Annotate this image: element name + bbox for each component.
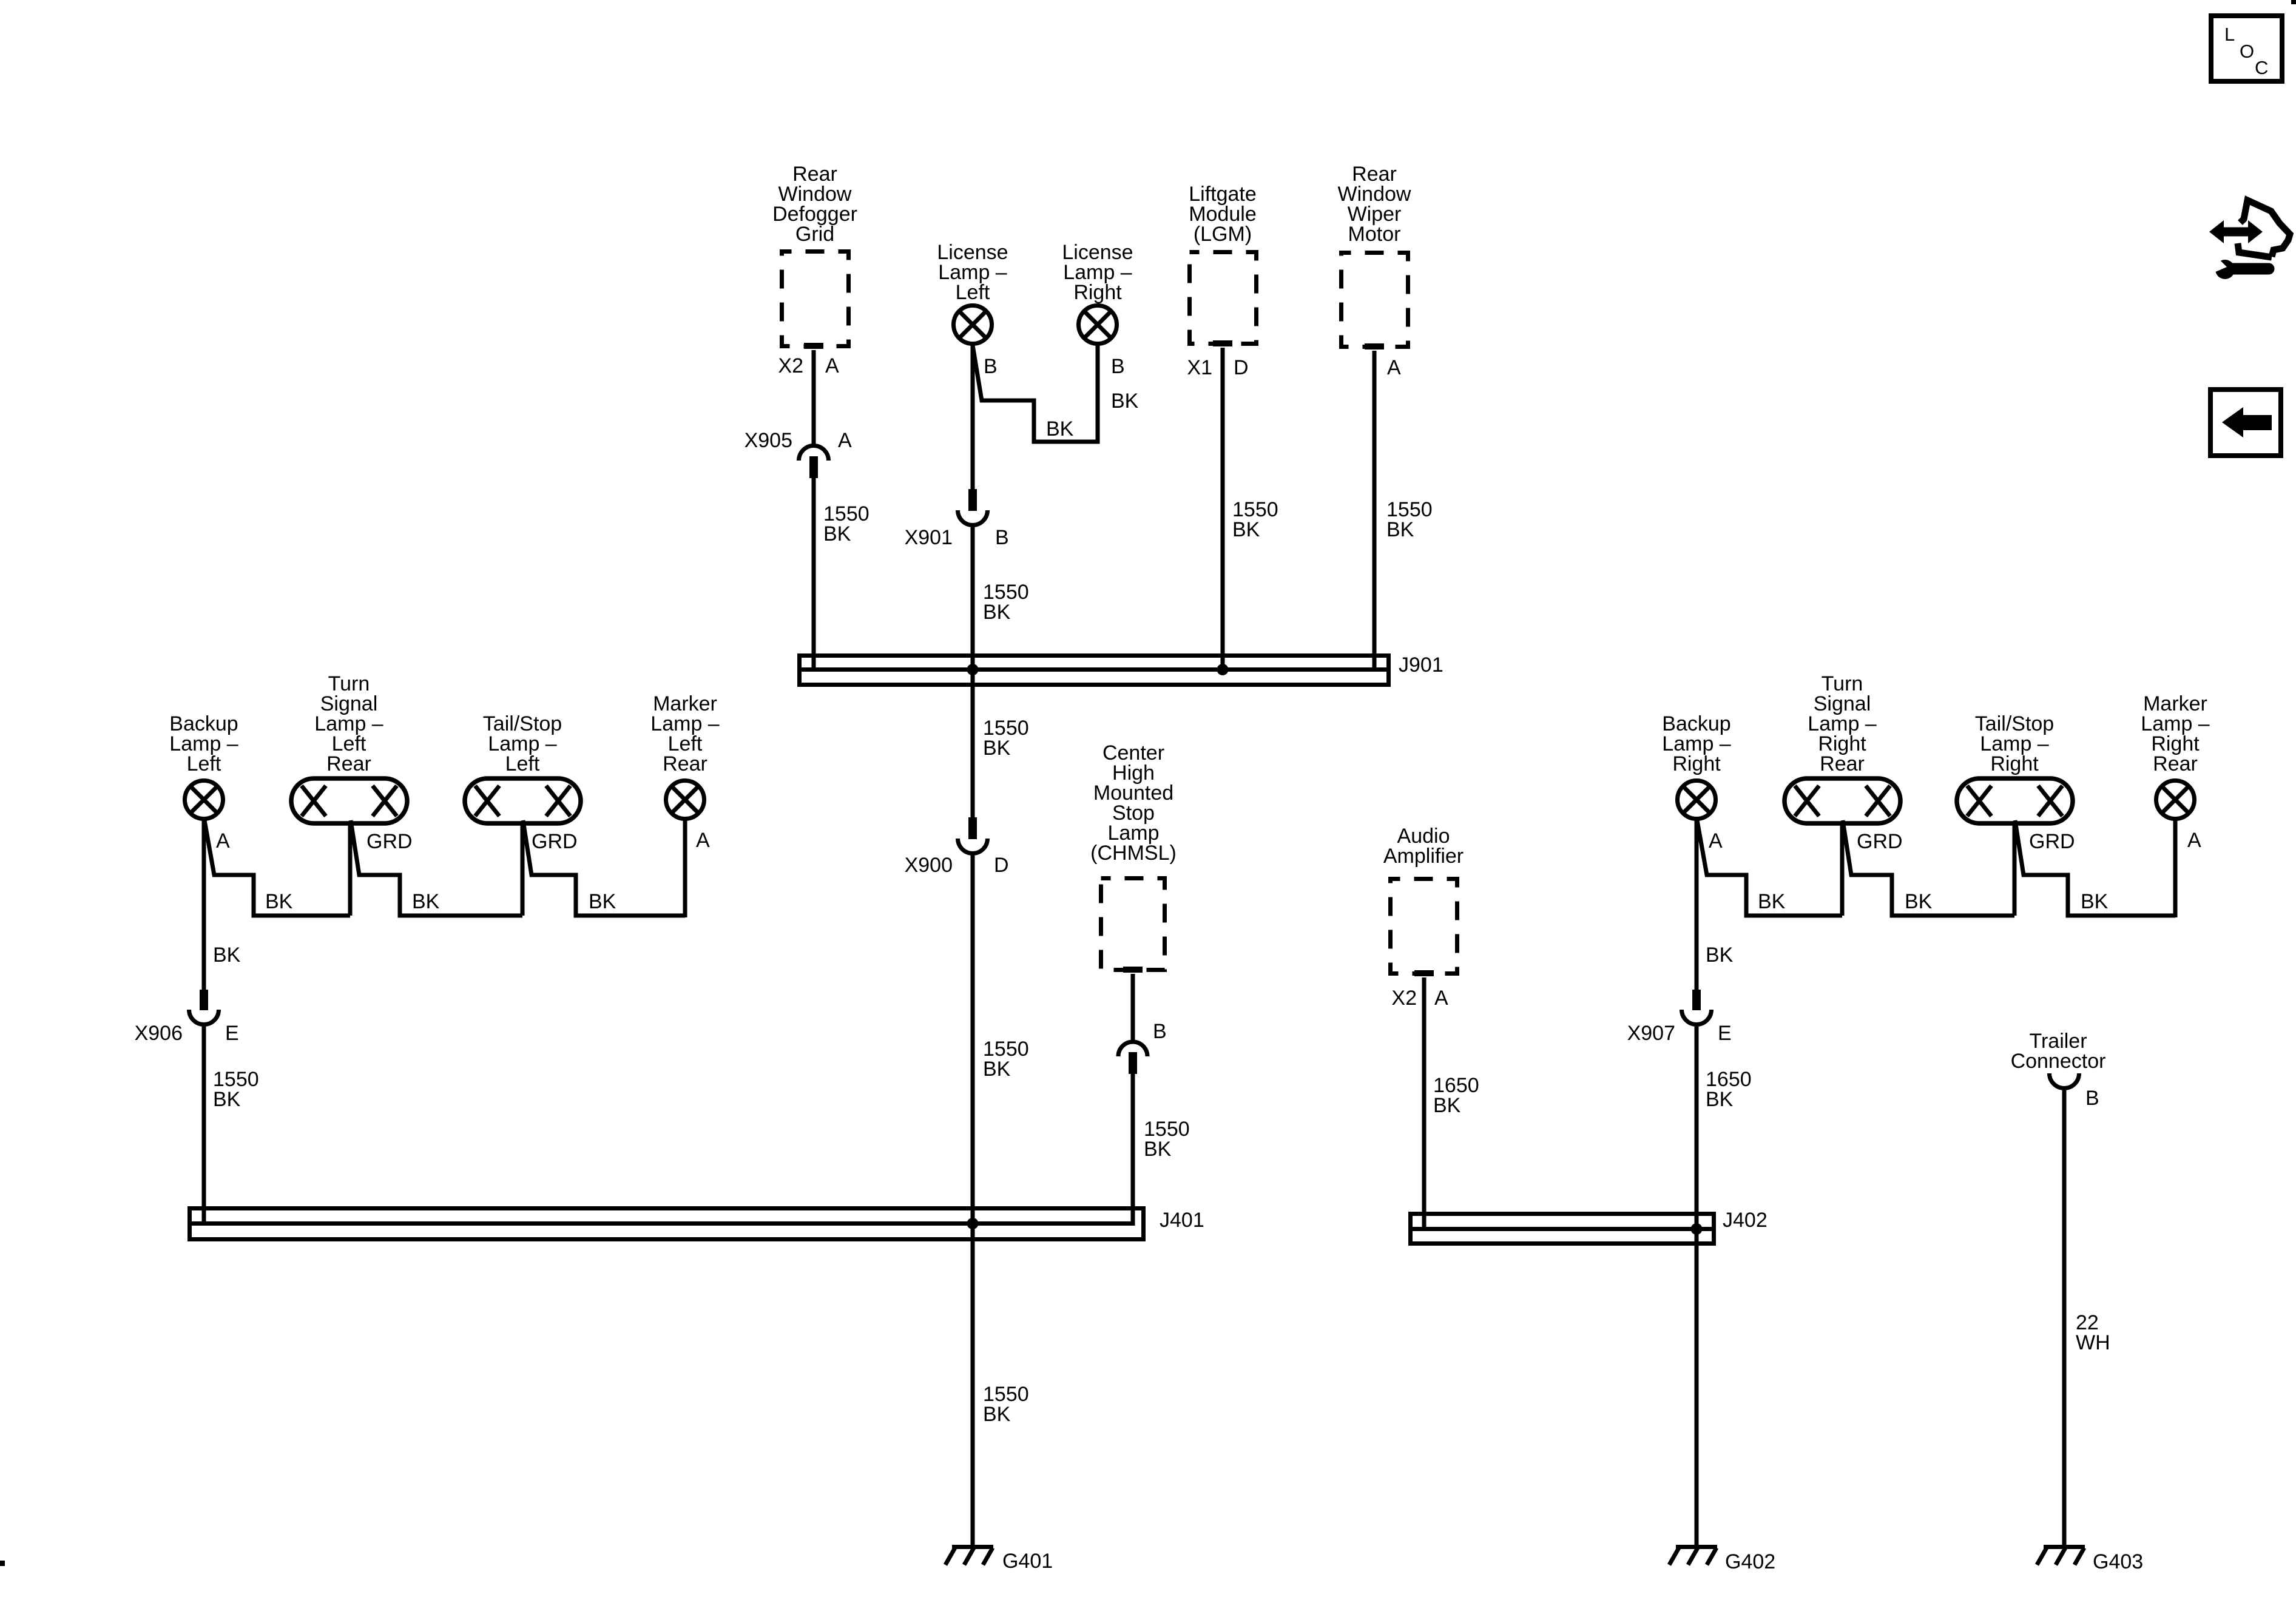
svg-text:BK: BK xyxy=(589,890,616,913)
svg-text:BK: BK xyxy=(265,890,293,913)
svg-text:X1: X1 xyxy=(1187,356,1212,379)
svg-text:G402: G402 xyxy=(1725,1550,1775,1573)
svg-text:BK: BK xyxy=(1046,417,1074,441)
svg-text:Left: Left xyxy=(956,281,990,304)
svg-text:BK: BK xyxy=(983,601,1011,624)
svg-text:Rear: Rear xyxy=(663,752,707,775)
svg-text:X2: X2 xyxy=(778,354,803,377)
svg-text:BK: BK xyxy=(213,1088,241,1111)
svg-text:(LGM): (LGM) xyxy=(1194,223,1252,246)
svg-text:BK: BK xyxy=(1706,1088,1734,1111)
svg-text:D: D xyxy=(994,854,1009,877)
svg-text:Rear: Rear xyxy=(1820,752,1865,775)
svg-text:BK: BK xyxy=(1706,944,1734,967)
svg-text:C: C xyxy=(2255,57,2268,78)
svg-text:BK: BK xyxy=(1433,1094,1461,1117)
svg-text:G403: G403 xyxy=(2093,1550,2143,1573)
svg-text:E: E xyxy=(225,1022,239,1045)
svg-text:X901: X901 xyxy=(905,526,953,549)
svg-text:BK: BK xyxy=(983,1058,1011,1081)
svg-text:Left: Left xyxy=(187,752,221,775)
svg-text:X905: X905 xyxy=(745,429,792,452)
svg-text:BK: BK xyxy=(1111,390,1139,413)
svg-text:Motor: Motor xyxy=(1348,223,1401,246)
svg-text:X906: X906 xyxy=(135,1022,183,1045)
svg-text:(CHMSL): (CHMSL) xyxy=(1090,842,1177,865)
svg-text:B: B xyxy=(2085,1087,2099,1110)
svg-text:BK: BK xyxy=(983,737,1011,760)
svg-text:A: A xyxy=(825,354,839,377)
svg-text:J901: J901 xyxy=(1399,653,1443,677)
svg-text:O: O xyxy=(2240,41,2254,62)
svg-text:B: B xyxy=(984,355,998,378)
svg-text:B: B xyxy=(1153,1020,1167,1043)
svg-text:J402: J402 xyxy=(1723,1209,1768,1232)
svg-text:Rear: Rear xyxy=(2153,752,2198,775)
svg-text:A: A xyxy=(1709,829,1723,852)
svg-text:BK: BK xyxy=(412,890,440,913)
svg-text:A: A xyxy=(1434,987,1448,1010)
svg-text:L: L xyxy=(2224,24,2235,45)
svg-text:D: D xyxy=(1234,356,1249,379)
svg-text:B: B xyxy=(1111,355,1125,378)
svg-text:E: E xyxy=(1718,1022,1732,1045)
svg-text:BK: BK xyxy=(1905,890,1933,913)
svg-text:BK: BK xyxy=(1386,518,1414,541)
svg-text:BK: BK xyxy=(1144,1138,1172,1161)
svg-text:A: A xyxy=(216,829,230,852)
svg-text:A: A xyxy=(1387,356,1401,379)
svg-text:Right: Right xyxy=(1073,281,1122,304)
svg-text:BK: BK xyxy=(2081,890,2109,913)
svg-text:Left: Left xyxy=(505,752,540,775)
svg-text:X2: X2 xyxy=(1391,987,1417,1010)
svg-text:Grid: Grid xyxy=(795,223,834,246)
svg-text:X900: X900 xyxy=(905,854,953,877)
svg-text:BK: BK xyxy=(1232,518,1260,541)
svg-text:Right: Right xyxy=(1672,752,1721,775)
svg-text:Amplifier: Amplifier xyxy=(1383,845,1464,868)
svg-text:Right: Right xyxy=(1990,752,2039,775)
svg-text:BK: BK xyxy=(213,944,241,967)
svg-text:Connector: Connector xyxy=(2011,1050,2106,1073)
svg-text:J401: J401 xyxy=(1160,1209,1204,1232)
svg-text:WH: WH xyxy=(2076,1331,2110,1354)
svg-text:A: A xyxy=(696,829,710,852)
svg-text:GRD: GRD xyxy=(2029,830,2075,853)
svg-text:GRD: GRD xyxy=(366,830,413,853)
svg-text:BK: BK xyxy=(823,522,851,545)
svg-text:B: B xyxy=(995,526,1009,549)
svg-text:BK: BK xyxy=(1758,890,1786,913)
svg-text:GRD: GRD xyxy=(1857,830,1903,853)
svg-text:X907: X907 xyxy=(1627,1022,1675,1045)
svg-text:A: A xyxy=(2187,829,2201,852)
svg-text:A: A xyxy=(838,429,852,452)
svg-text:Rear: Rear xyxy=(326,752,371,775)
svg-text:G401: G401 xyxy=(1002,1550,1053,1573)
svg-text:GRD: GRD xyxy=(532,830,578,853)
svg-text:BK: BK xyxy=(983,1403,1011,1426)
